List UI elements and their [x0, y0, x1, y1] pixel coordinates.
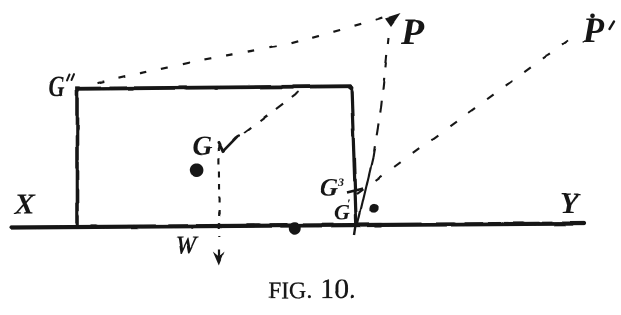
- line G' to P dashed upper part: [373, 38, 389, 158]
- svg-text:10.: 10.: [320, 273, 356, 305]
- ground line XY: [11, 224, 584, 228]
- svg-text:G: G: [193, 131, 213, 161]
- dot above P': [590, 14, 595, 19]
- tail below ground at G' junction: [355, 225, 357, 235]
- svg-text:W: W: [175, 232, 199, 259]
- svg-text:P: P: [401, 12, 425, 53]
- svg-text:X: X: [14, 188, 36, 221]
- dashed vertical W line: [218, 145, 221, 237]
- svg-text:P: P: [582, 10, 606, 50]
- dashed line G3 to P': [357, 33, 578, 194]
- rectangle top edge: [75, 86, 352, 89]
- svg-text:FIG.: FIG.: [268, 278, 313, 303]
- dot at G: [190, 163, 204, 177]
- arrowhead at G end of diagonal: [219, 136, 239, 152]
- dashed line from G'' to P: [97, 17, 386, 84]
- svg-text:G: G: [49, 69, 65, 103]
- dashed diagonal toward G: [236, 92, 299, 140]
- rectangle right side: [352, 87, 357, 225]
- W arrow stem: [218, 250, 220, 258]
- dot near G': [369, 204, 378, 213]
- svg-text:Y: Y: [560, 187, 581, 220]
- line G' to P solid lower part: [357, 158, 373, 225]
- svg-text:3: 3: [337, 175, 344, 189]
- rectangle left side: [75, 87, 79, 228]
- dot on ground line: [289, 222, 301, 234]
- blob at rectangle top-right corner: [348, 85, 353, 90]
- svg-text:G: G: [320, 175, 338, 202]
- arrowhead at P: [385, 14, 401, 28]
- tick at G3: [347, 189, 363, 193]
- W arrowhead: [213, 252, 225, 266]
- svg-text:′: ′: [347, 197, 351, 212]
